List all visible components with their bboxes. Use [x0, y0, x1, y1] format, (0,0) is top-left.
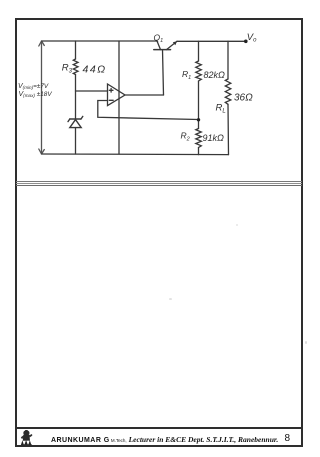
resistor R3 — [73, 59, 78, 75]
svg-text:V(max) ±18V: V(max) ±18V — [19, 91, 53, 98]
label Vin(max) ±18V — [19, 91, 53, 98]
value 44 ohm — [83, 64, 107, 76]
wire: R2 to bottom rail — [198, 148, 200, 155]
wire: R1 to feedback node — [198, 81, 200, 129]
node Vo output dot — [244, 40, 248, 44]
footer logo — [19, 430, 34, 447]
wire: RL to bottom rail — [227, 104, 230, 154]
svg-text:Vo: Vo — [247, 32, 257, 44]
wire: R1 branch top — [198, 41, 200, 61]
section divider triple ruled line — [16, 181, 302, 182]
svg-text:R2: R2 — [181, 131, 190, 143]
label R2 — [181, 131, 190, 143]
wire: top rail left segment — [42, 40, 158, 42]
faint scan specks — [169, 298, 172, 300]
wire: R3 to zener — [75, 75, 77, 120]
zener diode D1 — [68, 116, 83, 127]
footer text — [51, 435, 301, 447]
op-amp + sign — [109, 89, 113, 93]
label Vin(min) = ±7V — [18, 83, 49, 90]
label R1 — [182, 69, 191, 81]
wire: RL branch top — [227, 41, 229, 79]
node feedback junction dot — [197, 118, 200, 121]
transistor Q1 — [154, 41, 177, 50]
wire: op-amp supply line through — [118, 41, 120, 154]
svg-text:Q1: Q1 — [154, 33, 164, 45]
svg-text:RL: RL — [216, 103, 226, 115]
wire: base of Q1 down to op-amp output — [163, 50, 164, 95]
label Q1 — [154, 33, 164, 45]
wire: R3 branch top — [75, 41, 77, 59]
label RL — [216, 103, 226, 115]
svg-text:82kΩ: 82kΩ — [204, 70, 226, 80]
svg-text:R3: R3 — [62, 63, 73, 75]
input voltage dimension line — [39, 41, 45, 154]
wire: bottom rail — [42, 153, 229, 156]
resistor R1 — [196, 61, 202, 81]
label R3 — [62, 63, 73, 75]
svg-text:R1: R1 — [182, 69, 191, 81]
value 91k ohm — [203, 133, 225, 143]
wire: noninverting input from zener node — [76, 90, 108, 92]
svg-text:91kΩ: 91kΩ — [203, 133, 225, 143]
resistor R2 — [196, 129, 202, 148]
wire: op-amp output to base — [125, 94, 164, 96]
wire: inverting input feedback loop — [98, 101, 199, 120]
op-amp U1 — [108, 84, 126, 106]
resistor RL — [225, 79, 231, 104]
wire: zener to bottom rail — [75, 128, 77, 154]
op-amp - sign — [109, 99, 113, 101]
wire: top rail right segment — [177, 40, 246, 42]
value 82k ohm — [204, 70, 226, 80]
page number 8 — [285, 433, 291, 444]
svg-text:V(min)=±7V: V(min)=±7V — [18, 83, 49, 90]
svg-text:36Ω: 36Ω — [234, 93, 253, 104]
footer separator line — [16, 427, 302, 429]
value 36 ohm — [234, 93, 253, 104]
svg-text:44Ω: 44Ω — [83, 64, 107, 76]
label Vo — [247, 32, 257, 44]
